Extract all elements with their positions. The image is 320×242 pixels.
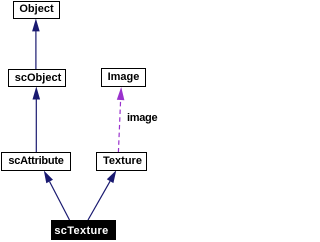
node scAttribute xyxy=(1,152,71,171)
label image (edge label) xyxy=(127,112,157,124)
wire arrow scTexture to Texture (inheritance, diagonal) xyxy=(88,170,116,220)
node Object xyxy=(13,1,60,19)
wire arrow scTexture to scAttribute (inheritance, diagonal) xyxy=(44,171,70,221)
wire arrow Texture to Image (usage, dashed purple) xyxy=(117,87,125,153)
node scObject xyxy=(8,69,66,87)
wire xyxy=(0,0,170,242)
wire arrow scAttribute to scObject (inheritance) xyxy=(33,87,41,153)
wire arrow scObject to Object (inheritance) xyxy=(32,19,40,70)
node Image xyxy=(101,68,146,87)
node scTexture xyxy=(51,220,116,240)
node Texture xyxy=(96,152,147,171)
